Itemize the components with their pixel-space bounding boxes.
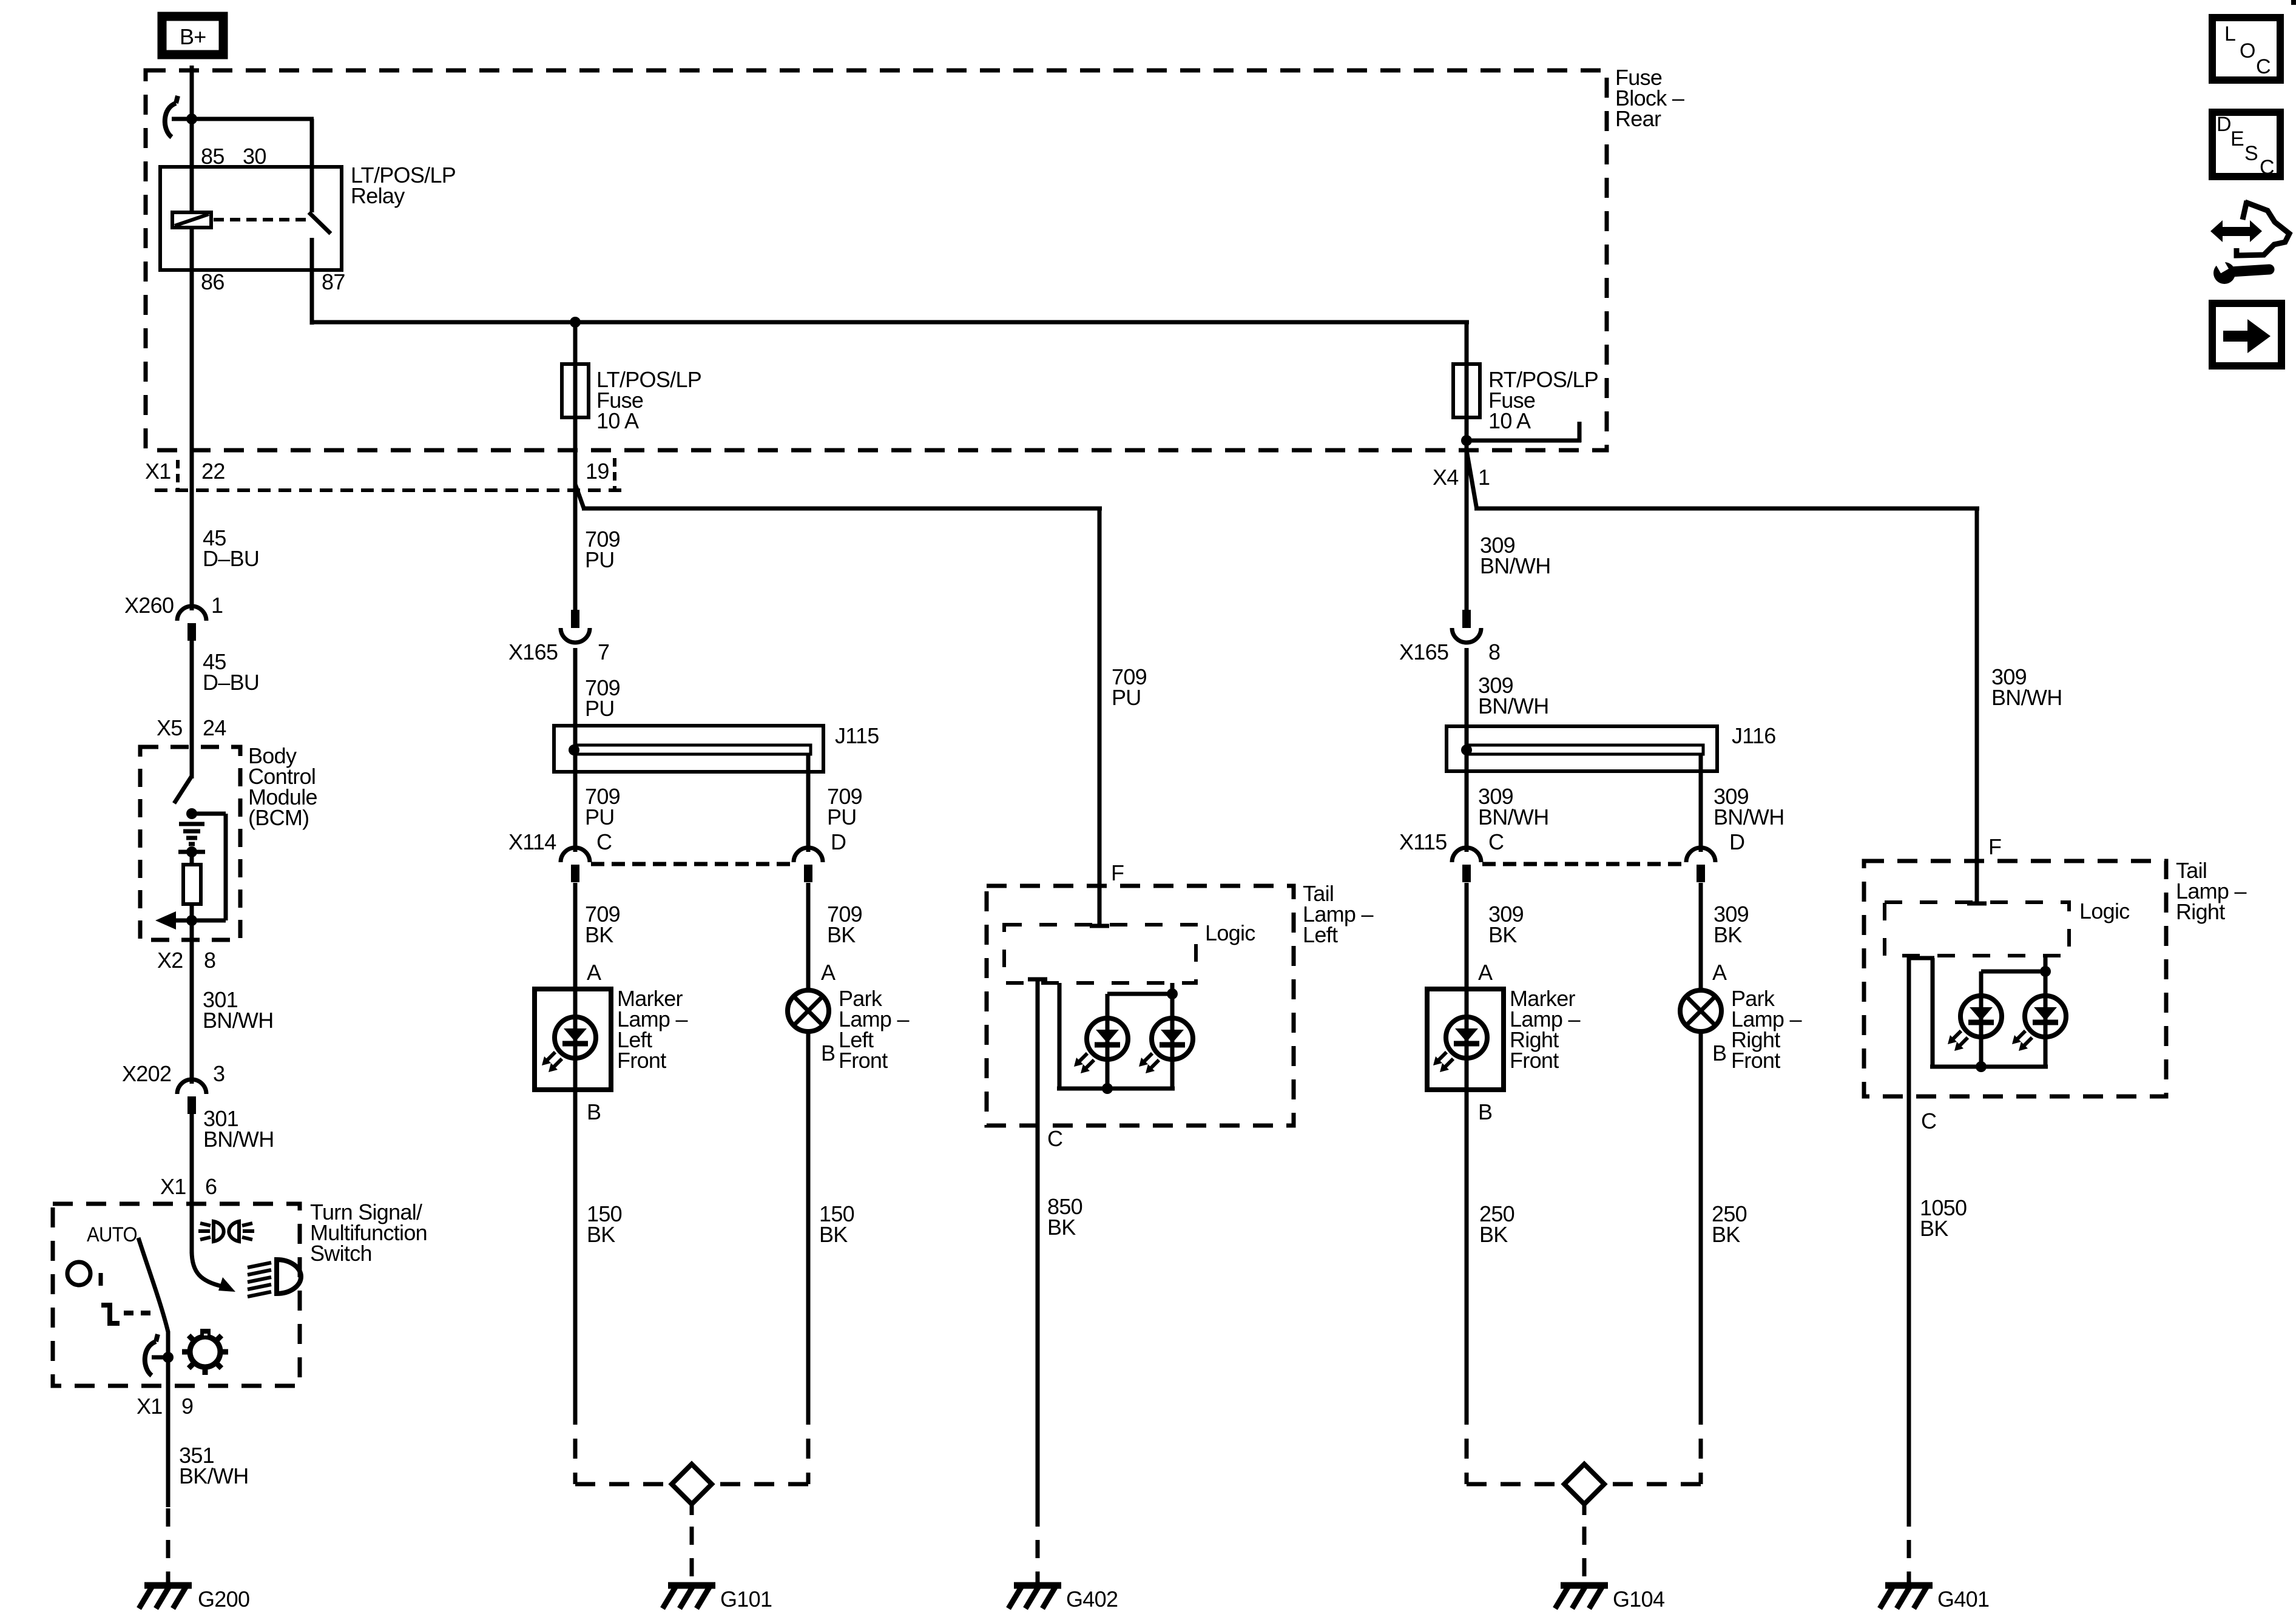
svg-text:PU: PU [585, 805, 615, 829]
wire 150 BK right dashed [806, 1405, 811, 1484]
svg-text:X114: X114 [508, 829, 556, 854]
switch AUTO contact clip [145, 1342, 156, 1376]
J116 internal bus [1468, 745, 1703, 754]
svg-text:G401: G401 [1937, 1587, 1989, 1612]
svg-text:C: C [2256, 55, 2271, 78]
svg-text:BK/WH: BK/WH [179, 1463, 249, 1488]
node: B+ feed junction [186, 113, 197, 124]
battery positive symbol B+ [162, 16, 223, 55]
ground G101 symbol [668, 1582, 715, 1589]
ground G104 symbol [1561, 1582, 1608, 1589]
svg-text:D: D [831, 829, 846, 854]
wire junction to relay pin 30 [192, 117, 314, 121]
connector X114 pin C [561, 848, 590, 862]
svg-text:BN/WH: BN/WH [1714, 805, 1784, 829]
node: J115 tap dot [569, 744, 579, 755]
node: tail left LED top [1167, 988, 1178, 999]
svg-text:10 A: 10 A [596, 408, 639, 433]
wire dashed to G200 [166, 1508, 171, 1585]
wire below park lamp left [806, 1031, 811, 1405]
svg-text:L: L [2224, 22, 2235, 46]
connector tick right of 19 [613, 458, 616, 489]
svg-text:AUTO: AUTO [87, 1223, 137, 1246]
wire 709 BK left [573, 883, 578, 990]
switch off-position tick [99, 1273, 103, 1286]
svg-text:PU: PU [1112, 685, 1141, 710]
lamp E3: Tail Lamp Left dashed box [987, 886, 1294, 1126]
wire C from logic (right) [1907, 956, 1911, 1508]
icon: auto light sensor gear [190, 1337, 220, 1367]
svg-text:E: E [2230, 127, 2244, 150]
svg-text:PU: PU [827, 805, 857, 829]
connector row X1 dotted line [155, 488, 626, 492]
lamp E1: Marker Lamp Left Front box [535, 989, 611, 1090]
wire 250 BK left solid [1465, 1090, 1469, 1405]
ground G402 symbol [1014, 1582, 1061, 1589]
svg-text:BK: BK [1714, 922, 1742, 947]
svg-text:B: B [821, 1041, 835, 1065]
wire J115 right leg down [806, 754, 811, 852]
svg-text:X202: X202 [122, 1061, 171, 1086]
svg-text:D: D [2217, 113, 2231, 136]
wire diamond to G101 [690, 1504, 694, 1515]
marker lamp left LED [555, 1017, 596, 1058]
relay K1: LT/POS/LP Relay box [160, 167, 342, 270]
wire BCM output down [190, 920, 194, 1084]
node: BCM output junction [186, 915, 197, 926]
wire J116 right leg down [1699, 754, 1703, 852]
splice diamond (G101 feed) [672, 1464, 712, 1504]
wire 150 BK left solid [573, 1090, 578, 1405]
svg-text:X115: X115 [1399, 829, 1447, 854]
wire F into logic (left) [1098, 888, 1102, 926]
svg-text:F: F [1988, 834, 2001, 859]
wire X4 to branch slant [1467, 450, 1477, 510]
wire F into logic (right) [1975, 863, 1979, 903]
node: BCM sense dot [186, 846, 197, 857]
relay switch blade [309, 212, 331, 234]
wire: main feed bus [310, 320, 1469, 325]
connector X115 dashed link [1482, 862, 1685, 866]
node: RT fuse output junction [1461, 435, 1472, 446]
tail lamp right LED 1 [1960, 996, 2002, 1037]
icon box DESC [2212, 112, 2280, 177]
wire C from logic (left) [1028, 977, 1047, 982]
icon box forward arrow [2212, 303, 2281, 366]
page corner mark [2291, 0, 2296, 5]
wire 45 D-BU lower [190, 641, 194, 778]
svg-text:BK: BK [1712, 1222, 1740, 1247]
wire B+ down to junction [190, 66, 194, 121]
svg-text:30: 30 [243, 144, 266, 169]
node: switch output junction [163, 1352, 174, 1363]
svg-text:24: 24 [203, 715, 226, 740]
wire below park lamp right [1699, 1031, 1703, 1405]
wire through marker lamp right [1465, 989, 1469, 1090]
svg-text:Rear: Rear [1615, 106, 1661, 131]
connector X165 pin 8 [1462, 610, 1471, 628]
svg-text:D–BU: D–BU [203, 546, 259, 571]
fuse F1: LT/POS/LP Fuse 10A [562, 364, 589, 417]
svg-text:X165: X165 [508, 640, 558, 664]
splice diamond (G104 feed) [1564, 1464, 1604, 1504]
svg-text:1: 1 [211, 593, 223, 618]
clip symbol on B+ feed [165, 103, 176, 137]
wire 19 to branch slant [575, 484, 584, 510]
svg-text:B: B [1712, 1041, 1726, 1065]
svg-text:A: A [1478, 960, 1493, 985]
svg-text:BN/WH: BN/WH [1480, 553, 1551, 578]
svg-text:PU: PU [585, 547, 615, 572]
svg-text:BN/WH: BN/WH [1478, 694, 1549, 718]
wire diamond to G104 [1582, 1504, 1587, 1515]
svg-text:85: 85 [201, 144, 225, 169]
lamp E6: Tail Lamp Right dashed box [1864, 861, 2166, 1096]
svg-text:X4: X4 [1433, 465, 1459, 490]
svg-text:Right: Right [2176, 899, 2225, 924]
svg-text:J116: J116 [1732, 723, 1776, 748]
BCM internal right loop wire [192, 812, 226, 816]
connector X114 dashed link [591, 862, 792, 866]
wire 309 BK left [1465, 883, 1469, 990]
connector X202 pin 3 [177, 1079, 206, 1094]
wire 709 PU to J115 [573, 648, 578, 772]
module U1: Body Control Module dashed box [140, 747, 240, 940]
wire relay 86 down [190, 228, 194, 461]
wire J115 left leg down [573, 772, 578, 852]
svg-text:A: A [1712, 960, 1727, 985]
svg-text:G104: G104 [1613, 1587, 1664, 1612]
svg-text:C: C [1488, 829, 1504, 854]
wire 250 BK left dashed [1465, 1405, 1469, 1484]
svg-text:X260: X260 [124, 593, 174, 618]
svg-text:BK: BK [1479, 1222, 1508, 1247]
icon: headlamp symbol [277, 1260, 301, 1294]
node: tail left LED bottom [1102, 1083, 1113, 1094]
tail lamp left LED 1 [1087, 1018, 1128, 1059]
switch wiper curve with arrow [192, 1251, 222, 1286]
wire 309 BN/WH down from X4 [1465, 450, 1469, 612]
svg-text:22: 22 [201, 459, 225, 484]
svg-text:1: 1 [1478, 465, 1490, 490]
svg-text:X1: X1 [145, 459, 171, 484]
wire 301 BN/WH lower [190, 1114, 194, 1254]
svg-text:6: 6 [205, 1174, 217, 1199]
wire stub at connector X4 [1467, 439, 1581, 443]
connector X165 pin 7 [571, 610, 579, 628]
svg-text:BK: BK [1047, 1215, 1076, 1240]
node: BCM internal top junction [186, 808, 197, 819]
svg-text:(BCM): (BCM) [248, 805, 309, 830]
svg-text:PU: PU [585, 696, 615, 721]
svg-text:BN/WH: BN/WH [203, 1127, 274, 1152]
BCM internal sense bar [178, 850, 205, 854]
svg-text:BK: BK [819, 1222, 848, 1247]
svg-text:B: B [1478, 1099, 1492, 1124]
tail left LED bracket [1058, 983, 1062, 1090]
svg-text:Front: Front [1731, 1048, 1780, 1073]
wire feed into RT fuse [1465, 322, 1469, 452]
svg-text:C: C [596, 829, 612, 854]
svg-text:BN/WH: BN/WH [1991, 685, 2062, 710]
BCM output arrow [155, 911, 176, 930]
svg-text:G402: G402 [1066, 1587, 1118, 1612]
BCM internal switch blade [174, 776, 192, 803]
connector X115 pin C [1452, 848, 1481, 862]
wire dashed to G401 [1907, 1508, 1911, 1585]
svg-text:B+: B+ [180, 24, 206, 49]
tail lamp right LED 2 [2025, 996, 2066, 1037]
wire relay 87 down [310, 238, 314, 325]
icon: connector repair (arrow + wrench) [2243, 201, 2247, 220]
wire 150 BK left dashed [573, 1405, 578, 1484]
svg-text:8: 8 [1488, 640, 1500, 664]
node: tail right LED bottom [1976, 1061, 1987, 1072]
svg-text:O: O [2240, 39, 2255, 62]
wire 709 PU down from 19 [573, 450, 578, 612]
node: tail right LED top [2040, 966, 2051, 977]
lamp E4: Marker Lamp Right Front box [1427, 989, 1504, 1090]
svg-text:BN/WH: BN/WH [1478, 805, 1549, 829]
svg-text:3: 3 [213, 1061, 225, 1086]
node: LT fuse tap [570, 317, 581, 328]
svg-text:19: 19 [586, 459, 609, 484]
splice pack J115 box [554, 726, 823, 772]
wire through marker lamp left [573, 989, 578, 1090]
wire 45 D-BU upper [190, 461, 194, 610]
connector X260 pin 1 [177, 606, 206, 621]
wire 709 BK right [806, 883, 811, 991]
wire J116 left leg down [1465, 771, 1469, 852]
svg-text:BK: BK [1920, 1216, 1948, 1241]
svg-text:86: 86 [201, 269, 225, 294]
svg-text:Relay: Relay [351, 183, 405, 208]
svg-text:Front: Front [1510, 1048, 1559, 1073]
tail lamp left LED 2 [1152, 1018, 1193, 1059]
svg-text:BK: BK [827, 922, 856, 947]
svg-text:J115: J115 [835, 723, 879, 748]
splice pack J116 box [1447, 726, 1717, 771]
svg-text:X165: X165 [1399, 640, 1448, 664]
svg-text:7: 7 [598, 640, 609, 664]
marker lamp right LED [1446, 1017, 1487, 1058]
svg-text:G200: G200 [198, 1587, 249, 1612]
switch off-position circle [67, 1262, 90, 1285]
svg-text:Front: Front [617, 1048, 666, 1073]
wire 309 BN/WH to J116 [1465, 648, 1469, 772]
J115 internal bus [575, 745, 811, 754]
svg-text:87: 87 [322, 269, 345, 294]
wire switch output down [166, 1357, 171, 1507]
svg-text:Logic: Logic [1205, 920, 1255, 945]
switch main blade [138, 1238, 168, 1357]
svg-text:10 A: 10 A [1488, 408, 1531, 433]
icon box LOC [2212, 18, 2280, 80]
node: J116 tap dot [1461, 744, 1472, 755]
svg-text:BK: BK [585, 922, 613, 947]
lamp E2: Park Lamp Left Front [788, 990, 829, 1031]
svg-text:Left: Left [1303, 922, 1338, 947]
logic module dashed box (left) [1004, 925, 1196, 983]
svg-text:A: A [821, 960, 836, 985]
svg-text:X5: X5 [157, 715, 183, 740]
wire feed into LT fuse [573, 322, 578, 452]
wire resistor to output node [190, 904, 194, 920]
switch step mark with dashes [101, 1305, 120, 1323]
wire dashed to G402 [1036, 1508, 1040, 1585]
lamp E5: Park Lamp Right Front [1680, 990, 1721, 1031]
wire branch to tail lamp left [582, 507, 1102, 511]
logic module dashed box (right) [1885, 902, 2069, 956]
connector X115 pin D [1686, 848, 1715, 862]
wire 309 BK right [1699, 883, 1703, 991]
fuse block - rear dashed box [146, 70, 1607, 450]
ground G401 symbol [1885, 1582, 1933, 1589]
wire junction down to relay pin 85 [190, 119, 194, 214]
svg-text:BN/WH: BN/WH [203, 1008, 274, 1033]
svg-text:Logic: Logic [2079, 899, 2130, 923]
svg-text:X1: X1 [160, 1174, 186, 1199]
tail right LED bracket [1931, 958, 1935, 1068]
wire 250 BK right dashed [1699, 1405, 1703, 1484]
svg-text:BK: BK [587, 1222, 615, 1247]
svg-text:Front: Front [839, 1048, 888, 1073]
icon: park lamps symbol [214, 1221, 224, 1241]
switch S1: Turn Signal/Multifunction Switch dashed box [53, 1204, 300, 1386]
wire branch to tail lamp right [1474, 507, 1979, 511]
fuse F2: RT/POS/LP Fuse 10A [1453, 364, 1480, 417]
svg-text:9: 9 [181, 1394, 193, 1419]
connector X1 tick left [176, 460, 180, 489]
svg-text:A: A [587, 960, 601, 985]
svg-text:C: C [1921, 1109, 1936, 1133]
svg-text:BK: BK [1488, 922, 1517, 947]
relay coil-contact dashed link [214, 218, 306, 221]
connector X114 pin D [794, 848, 823, 862]
wire sense to resistor [190, 852, 194, 865]
svg-text:B: B [587, 1099, 601, 1124]
svg-text:D–BU: D–BU [203, 670, 259, 695]
svg-text:D: D [1729, 829, 1744, 854]
svg-text:F: F [1111, 860, 1124, 885]
svg-text:Switch: Switch [310, 1241, 372, 1266]
svg-text:G101: G101 [720, 1587, 772, 1612]
resistor R1: BCM internal [183, 865, 201, 904]
svg-text:X1: X1 [137, 1394, 163, 1419]
relay coil [172, 212, 211, 228]
BCM internal chassis bars [179, 822, 204, 826]
ground G200 symbol [144, 1582, 192, 1589]
svg-text:X2: X2 [157, 948, 183, 973]
svg-text:C: C [1047, 1126, 1062, 1151]
svg-text:S: S [2244, 142, 2258, 165]
svg-text:C: C [2260, 156, 2274, 179]
svg-text:8: 8 [204, 948, 215, 973]
